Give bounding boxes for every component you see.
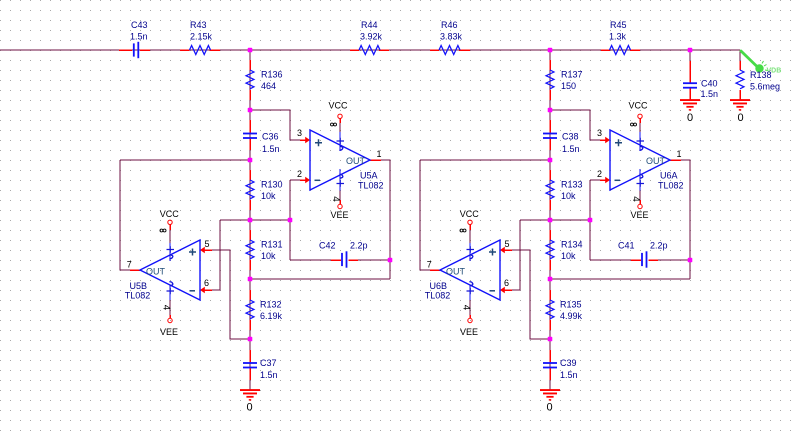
wire to C41 left — [590, 259, 631, 261]
svg-text:1.5n: 1.5n — [560, 370, 578, 380]
pin C41 right — [649, 259, 659, 261]
pin C36 bottom — [249, 139, 251, 150]
pin C39 top — [549, 350, 551, 362]
node junction R136/C36 — [248, 108, 253, 113]
pin C42 left — [331, 259, 341, 261]
pin 2 arrow U5A — [300, 179, 307, 181]
pin C43 left — [119, 49, 132, 51]
pin C37 bottom — [249, 368, 251, 380]
pin R130 top — [249, 170, 251, 180]
capacitor C43 — [133, 43, 135, 56]
wire to C42 left — [290, 259, 331, 261]
resistor R46 — [439, 46, 460, 55]
pin R131 top — [249, 230, 251, 240]
svg-text:VCC: VCC — [329, 101, 349, 111]
svg-text:C42: C42 — [319, 241, 336, 251]
pin 1 U5A output — [370, 159, 381, 161]
svg-text:TL082: TL082 — [425, 291, 451, 301]
wire feedback row y=279 — [550, 278, 690, 280]
pin C37 top — [249, 350, 251, 362]
wire feedback row y=279 — [250, 278, 390, 280]
svg-text:0: 0 — [546, 402, 552, 414]
wire node to U5A pin3 — [250, 110, 300, 140]
svg-text:TL082: TL082 — [125, 291, 151, 301]
pin R133 bottom — [549, 200, 551, 210]
svg-text:1.5n: 1.5n — [260, 370, 278, 380]
wire vertical chain node column x=550 — [549, 50, 551, 390]
wire riser pin2/feedback x=290 — [289, 180, 291, 260]
pin R134 top — [549, 230, 551, 240]
svg-text:2: 2 — [597, 169, 602, 179]
svg-text:464: 464 — [261, 81, 276, 91]
svg-text:TL082: TL082 — [358, 181, 384, 191]
pin C36 top — [249, 120, 251, 133]
wire VEE to U5A — [339, 191, 341, 201]
svg-text:6.19k: 6.19k — [260, 311, 283, 321]
pin R135 top — [549, 290, 551, 300]
pin 6 arrow U6B — [503, 289, 512, 291]
wire row y=220 — [220, 219, 290, 221]
pin R46 left — [430, 49, 439, 51]
pin R138 bottom — [739, 90, 741, 100]
pin R133 top — [549, 170, 551, 180]
op-amp U6A (TL082) — [610, 130, 670, 190]
capacitor C40 — [683, 82, 697, 84]
pin C42 right — [349, 259, 359, 261]
svg-text:OUT: OUT — [646, 156, 666, 166]
capacitor C37 — [243, 362, 257, 364]
svg-text:VCC: VCC — [460, 209, 480, 219]
capacitor C36 — [243, 133, 257, 135]
VEE power symbol at U6B — [468, 318, 472, 322]
pin 4 V- U6A — [639, 169, 641, 191]
svg-text:OUT: OUT — [146, 267, 166, 277]
wire to U5A pin2 — [290, 179, 300, 181]
svg-text:C40: C40 — [701, 79, 718, 89]
svg-text:VEE: VEE — [460, 327, 478, 337]
svg-text:0: 0 — [246, 402, 252, 414]
resistor R45 — [610, 46, 631, 55]
pin R130 bottom — [249, 200, 251, 210]
svg-text:0: 0 — [737, 112, 743, 124]
node junction bus/R137 — [548, 48, 553, 53]
resistor R43 — [190, 46, 211, 55]
svg-text:1.5n: 1.5n — [562, 144, 580, 154]
svg-text:1: 1 — [377, 149, 382, 159]
pin C41 left — [631, 259, 641, 261]
node junction row220 x=550 — [548, 218, 553, 223]
op-amp U5B (TL082) — [140, 240, 200, 300]
pin R44 left — [350, 49, 359, 51]
svg-text:1.5n: 1.5n — [701, 89, 719, 99]
svg-text:VCC: VCC — [160, 209, 180, 219]
pin R137 bottom — [549, 90, 551, 100]
pin R46 right — [459, 49, 470, 51]
svg-text:3.83k: 3.83k — [440, 32, 463, 42]
svg-text:4.99k: 4.99k — [560, 311, 583, 321]
pin VEE symbol U6A — [639, 200, 641, 204]
pin C38 top — [549, 120, 551, 133]
pin 7 U5B output — [130, 269, 141, 271]
op-amp U5A (TL082) — [310, 130, 370, 190]
ground under R138 — [730, 99, 750, 111]
svg-text:R44: R44 — [361, 20, 378, 30]
pin 4 V- U5A — [339, 169, 341, 191]
wire node row y=160 to U6B output — [420, 159, 550, 161]
wire main input bus y=50 — [0, 49, 740, 51]
VCC power symbol at U6A — [638, 114, 642, 118]
pin 2 arrow U6A — [600, 179, 607, 181]
pin R132 bottom — [249, 320, 251, 330]
VEE power symbol at U5B — [168, 318, 172, 322]
wire C41 right — [658, 259, 690, 261]
svg-text:1.5n: 1.5n — [262, 144, 280, 154]
node junction row220 x=290 — [288, 218, 293, 223]
wire U6B output riser — [420, 160, 430, 270]
svg-text:7: 7 — [127, 260, 132, 270]
pin R138 top — [739, 61, 741, 70]
resistor R138 — [736, 70, 744, 89]
svg-text:1: 1 — [677, 149, 682, 159]
resistor R137 — [546, 70, 554, 89]
svg-text:2.2p: 2.2p — [650, 241, 668, 251]
ground under C37 — [240, 389, 260, 401]
capacitor C42 — [341, 253, 343, 266]
svg-text:U5B: U5B — [130, 281, 148, 291]
wire VEE to U6B — [469, 300, 471, 315]
svg-text:4: 4 — [630, 196, 641, 202]
svg-text:10k: 10k — [561, 191, 576, 201]
svg-text:10k: 10k — [561, 251, 576, 261]
pin number 8 U5A — [331, 123, 337, 126]
VCC power symbol at U6B — [468, 220, 472, 224]
wire VCC to U6A — [639, 122, 641, 132]
svg-text:2.2p: 2.2p — [350, 241, 368, 251]
wire bus corner to R138 — [739, 50, 741, 61]
pin R45 right — [630, 49, 640, 51]
pin VEE symbol U6B — [469, 315, 471, 318]
pin C38 bottom — [549, 139, 551, 150]
svg-text:C41: C41 — [618, 241, 635, 251]
resistor R44 — [359, 46, 380, 55]
pin 5 arrow U5B — [203, 249, 212, 251]
wire U6B pin6 riser — [504, 220, 520, 290]
pin VCC symbol U6B — [469, 225, 471, 230]
pin R132 top — [249, 290, 251, 300]
pin 8 V+ U5A — [339, 132, 341, 151]
svg-text:R134: R134 — [561, 240, 583, 250]
pin VCC symbol U5A — [339, 119, 341, 123]
svg-text:R46: R46 — [441, 20, 458, 30]
pin C39 bottom — [549, 368, 551, 380]
resistor R135 — [546, 300, 554, 319]
pin R136 top — [249, 60, 251, 70]
pin number 8 U6A — [631, 123, 637, 126]
svg-text:C37: C37 — [260, 358, 277, 368]
svg-text:5: 5 — [505, 239, 510, 249]
capacitor C41 — [641, 253, 643, 266]
node junction R134/R135 — [548, 277, 553, 282]
pin VEE symbol U5B — [169, 315, 171, 318]
pin VCC symbol U5B — [169, 225, 171, 230]
svg-text:1.3k: 1.3k — [609, 32, 627, 42]
svg-text:U6B: U6B — [430, 281, 448, 291]
pin 8 V+ U6B — [469, 243, 471, 261]
svg-text:4: 4 — [461, 305, 472, 311]
wire U5A output feedback riser — [381, 160, 390, 279]
svg-text:5.6meg: 5.6meg — [750, 82, 780, 92]
wire to U6A pin2 — [590, 179, 600, 181]
svg-text:4: 4 — [330, 196, 341, 202]
resistor R132 — [246, 300, 254, 319]
pin C43 right — [140, 49, 150, 51]
svg-text:3: 3 — [297, 128, 302, 138]
svg-text:3: 3 — [597, 128, 602, 138]
svg-text:1.5n: 1.5n — [130, 32, 148, 42]
svg-text:C43: C43 — [131, 20, 148, 30]
pin R135 bottom — [549, 320, 551, 330]
pin 4 V- U6B — [469, 285, 471, 300]
wire vertical chain node column x=250 — [249, 50, 251, 390]
svg-text:7: 7 — [427, 260, 432, 270]
pin C40 bottom — [689, 89, 691, 100]
VEE power symbol at U6A — [638, 204, 642, 208]
op-amp U6B (TL082) — [440, 240, 500, 300]
wire U6A output feedback riser — [681, 160, 690, 279]
VEE power symbol at U5A — [338, 204, 342, 208]
svg-text:C38: C38 — [562, 132, 579, 142]
svg-text:R45: R45 — [610, 20, 627, 30]
svg-text:2: 2 — [297, 169, 302, 179]
svg-text:OUT: OUT — [446, 267, 466, 277]
pin 8 V+ U6A — [639, 132, 641, 151]
svg-text:4: 4 — [161, 305, 172, 311]
node junction C42 output — [388, 258, 393, 263]
ground under C40 — [680, 99, 700, 111]
wire U5B output riser — [120, 160, 130, 270]
svg-text:2.15k: 2.15k — [190, 32, 213, 42]
pin number 8 U6B — [460, 229, 466, 232]
node junction R135/C39 — [548, 337, 553, 342]
VCC power symbol at U5B — [168, 220, 172, 224]
svg-text:6: 6 — [504, 278, 509, 288]
svg-text:U6A: U6A — [660, 171, 678, 181]
node junction C38/R133 — [548, 158, 553, 163]
pin 4 V- U5B — [169, 285, 171, 300]
resistor R133 — [546, 180, 554, 199]
svg-text:6: 6 — [204, 278, 209, 288]
svg-text:VEE: VEE — [331, 210, 349, 220]
svg-text:10k: 10k — [261, 251, 276, 261]
svg-text:R135: R135 — [560, 300, 582, 310]
svg-text:C39: C39 — [560, 358, 577, 368]
svg-text:C36: C36 — [262, 132, 279, 142]
node junction R132/C37 — [248, 337, 253, 342]
wire VCC to U5B — [169, 230, 171, 243]
wire U5B pin6 riser — [204, 220, 220, 290]
svg-text:R137: R137 — [561, 70, 583, 80]
svg-text:U5A: U5A — [360, 171, 378, 181]
pin R44 right — [379, 49, 389, 51]
wire U5B pin5 riser — [204, 250, 250, 339]
wire bus to C40 — [689, 50, 691, 61]
svg-text:10k: 10k — [261, 191, 276, 201]
pin R131 bottom — [249, 260, 251, 270]
svg-text:R132: R132 — [260, 300, 282, 310]
wire VEE to U5B — [169, 300, 171, 315]
pin R137 top — [549, 60, 551, 70]
wire VCC to U6B — [469, 230, 471, 243]
svg-text:R130: R130 — [261, 180, 283, 190]
svg-text:VEE: VEE — [160, 327, 178, 337]
VDB probe marker — [741, 51, 757, 67]
resistor R131 — [246, 240, 254, 259]
wire node to U6A pin3 — [550, 110, 600, 140]
VCC power symbol at U5A — [338, 114, 342, 118]
node junction C36/R130 — [248, 158, 253, 163]
ground under C39 — [540, 389, 560, 401]
wire riser pin2/feedback x=590 — [589, 180, 591, 260]
node junction row220 x=250 — [248, 218, 253, 223]
pin 3 arrow U6A — [600, 139, 607, 141]
svg-text:OUT: OUT — [346, 156, 366, 166]
svg-text:3.92k: 3.92k — [360, 32, 383, 42]
wire VCC to U5A — [339, 122, 341, 132]
svg-text:VCC: VCC — [629, 101, 649, 111]
svg-text:R136: R136 — [261, 70, 283, 80]
wire row y=220 — [520, 219, 590, 221]
capacitor C38 — [543, 133, 557, 135]
pin R43 left — [180, 49, 190, 51]
svg-text:VEE: VEE — [631, 210, 649, 220]
wire node row y=160 to U5B output — [120, 159, 250, 161]
node junction row220 x=590 — [588, 218, 593, 223]
pin 3 arrow U5A — [300, 139, 307, 141]
node junction bus/C40 — [688, 48, 693, 53]
svg-text:R43: R43 — [190, 20, 207, 30]
node junction R137/C38 — [548, 108, 553, 113]
svg-text:0: 0 — [687, 112, 693, 124]
wire VEE to U6A — [639, 191, 641, 201]
wire U6B pin5 riser — [504, 250, 550, 339]
node junction R131/R132 — [248, 277, 253, 282]
pin VEE symbol U5A — [339, 200, 341, 204]
pin R136 bottom — [249, 90, 251, 100]
svg-text:TL082: TL082 — [658, 181, 684, 191]
resistor R134 — [546, 240, 554, 259]
svg-text:5: 5 — [205, 239, 210, 249]
pin 1 U6A output — [670, 159, 681, 161]
node junction bus/R136 — [248, 48, 253, 53]
svg-text:150: 150 — [561, 81, 576, 91]
pin 8 V+ U5B — [169, 243, 171, 261]
pin R45 left — [601, 49, 610, 51]
pin 7 U6B output — [430, 269, 441, 271]
svg-text:R133: R133 — [561, 180, 583, 190]
svg-text:R138: R138 — [750, 70, 772, 80]
pin R134 bottom — [549, 260, 551, 270]
pin number 8 U5B — [160, 229, 166, 232]
pin C40 top — [689, 61, 691, 82]
pin VCC symbol U6A — [639, 119, 641, 123]
pin R43 right — [210, 49, 221, 51]
pin 6 arrow U5B — [203, 289, 212, 291]
pin 5 arrow U6B — [503, 249, 512, 251]
resistor R136 — [246, 70, 254, 89]
wire C42 right — [358, 259, 390, 261]
svg-text:R131: R131 — [261, 240, 283, 250]
capacitor C39 — [543, 362, 557, 364]
node junction C41 output — [688, 258, 693, 263]
resistor R130 — [246, 180, 254, 199]
